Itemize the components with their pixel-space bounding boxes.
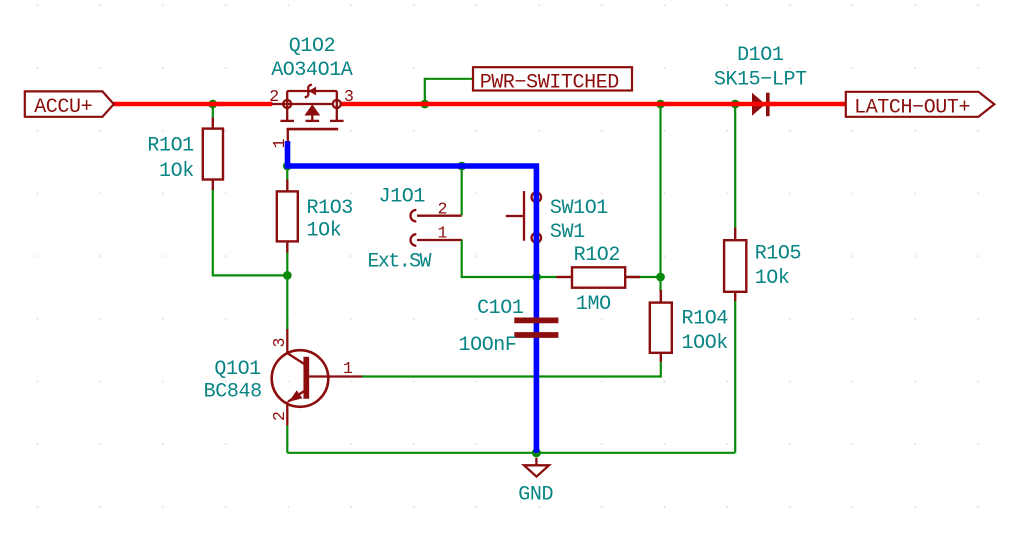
resistor R103 — [277, 180, 298, 253]
node R101/R103 junction — [283, 271, 292, 280]
svg-text:SK15−LPT: SK15−LPT — [714, 68, 807, 91]
label PWR-SWITCHED — [473, 67, 632, 90]
svg-text:1: 1 — [343, 359, 353, 378]
svg-text:GND: GND — [518, 483, 553, 506]
hier label ACCU+ — [25, 91, 114, 116]
wire PWR-SWITCHED tap — [425, 79, 473, 104]
svg-text:R1O1: R1O1 — [147, 134, 194, 157]
svg-text:D1O1: D1O1 — [737, 44, 784, 67]
svg-text:Q1O2: Q1O2 — [289, 35, 335, 58]
node J101-2 junction — [457, 162, 466, 171]
svg-text:BC848: BC848 — [204, 380, 262, 403]
capacitor C101 — [514, 320, 558, 335]
svg-text:LATCH−OUT+: LATCH−OUT+ — [854, 96, 970, 119]
svg-text:3: 3 — [270, 338, 289, 348]
svg-text:1OOk: 1OOk — [682, 332, 728, 355]
svg-text:2: 2 — [438, 199, 448, 218]
svg-text:ACCU+: ACCU+ — [34, 96, 92, 119]
wire J101 pin1 to R102 — [462, 239, 557, 277]
wire R101 bottom to corner — [213, 190, 287, 276]
node R102 column junction — [656, 100, 665, 109]
resistor R101 — [203, 118, 223, 191]
svg-text:Q1O1: Q1O1 — [214, 358, 261, 381]
svg-text:SW1O1: SW1O1 — [550, 197, 608, 220]
svg-text:2: 2 — [270, 411, 289, 421]
svg-text:1Ok: 1Ok — [755, 267, 790, 290]
diode D101 body — [752, 93, 765, 116]
node PWR-SWITCHED junction — [420, 100, 429, 109]
wire power rail mid — [341, 102, 846, 107]
svg-text:R1O2: R1O2 — [574, 244, 620, 267]
wire R104 bottom to Q101 base — [362, 362, 661, 377]
resistor R104 — [650, 290, 672, 362]
svg-text:Ext.SW: Ext.SW — [368, 250, 432, 273]
switch SW101 — [506, 191, 524, 241]
transistor Q102 substrate arrow — [304, 104, 320, 115]
svg-text:SW1: SW1 — [550, 221, 585, 244]
resistor R102 — [557, 267, 641, 287]
transistor Q101 — [272, 329, 362, 426]
wire R103 top stub — [286, 166, 288, 180]
hier label LATCH-OUT+ — [846, 92, 995, 117]
resistor R105 — [724, 228, 746, 302]
ground — [524, 458, 549, 477]
svg-text:2: 2 — [269, 87, 279, 106]
svg-text:1: 1 — [270, 138, 289, 148]
wire J101 pin2 branch — [461, 166, 463, 215]
svg-text:1: 1 — [438, 224, 448, 243]
node ACCU junction — [208, 100, 217, 109]
wire blue gate net — [288, 141, 537, 453]
node D101 junction — [731, 100, 740, 109]
wire bottom rail — [287, 452, 735, 454]
svg-text:R1O3: R1O3 — [307, 197, 353, 220]
svg-text:1OOnF: 1OOnF — [458, 334, 516, 357]
wire R103 bottom to Q101 collector — [286, 252, 288, 330]
wire power rail left — [114, 102, 273, 107]
wire R105 column top — [734, 104, 736, 228]
node gate/R103 junction — [283, 162, 292, 171]
transistor Q102 body — [272, 103, 333, 105]
wire Q101 emitter down — [286, 426, 288, 453]
svg-text:1MO: 1MO — [576, 293, 611, 316]
svg-text:R1O4: R1O4 — [682, 308, 728, 331]
svg-text:AO34O1A: AO34O1A — [271, 59, 353, 82]
switch SW101 contacts — [532, 192, 542, 242]
connector J101 — [411, 210, 462, 246]
node R102/blue junction — [532, 273, 541, 282]
node GND junction — [532, 448, 541, 457]
svg-text:R1O5: R1O5 — [755, 243, 801, 266]
svg-text:J1O1: J1O1 — [379, 185, 426, 208]
svg-text:PWR−SWITCHED: PWR−SWITCHED — [480, 71, 619, 94]
svg-text:C1O1: C1O1 — [477, 297, 524, 320]
node R102/R104 junction — [656, 273, 665, 282]
svg-text:1Ok: 1Ok — [307, 220, 342, 243]
wire R102 R104 column — [659, 104, 661, 291]
wire R101 top — [212, 104, 214, 118]
wire R102 right — [625, 276, 660, 278]
svg-text:3: 3 — [344, 87, 354, 106]
wire R105 column bottom — [734, 301, 736, 453]
svg-text:1Ok: 1Ok — [159, 160, 194, 183]
transistor Q102 body diode arrow — [309, 87, 317, 96]
